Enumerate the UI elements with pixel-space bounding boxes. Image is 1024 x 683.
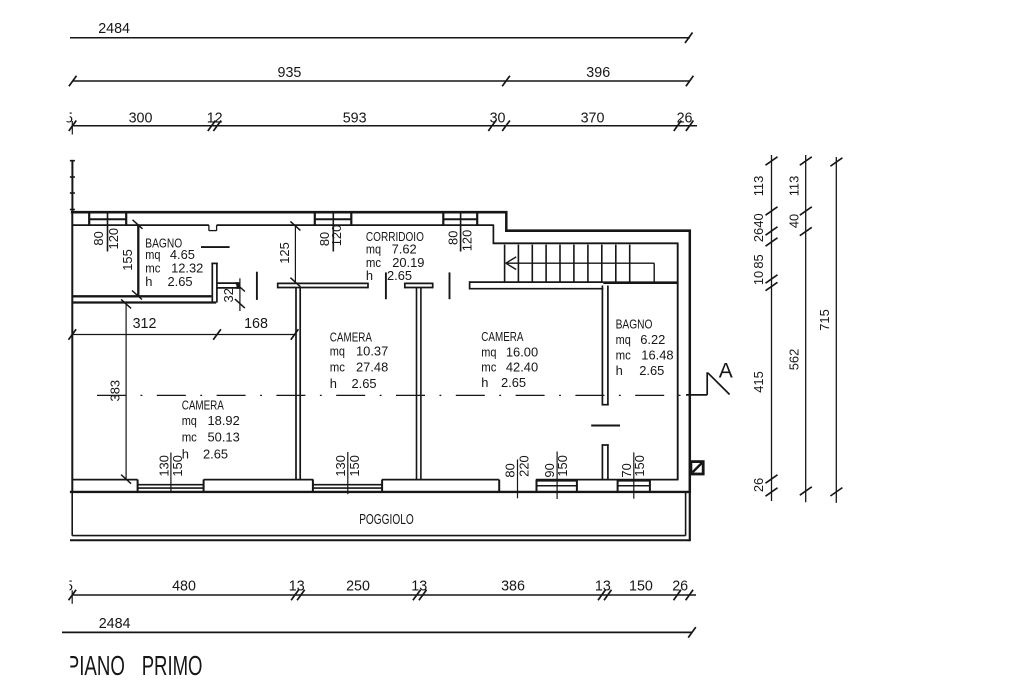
bottom dimension labels <box>65 579 688 595</box>
svg-text:383: 383 <box>108 380 123 402</box>
stair walk line with arrow <box>506 257 654 282</box>
svg-text:CAMERA: CAMERA <box>481 329 524 344</box>
dimension line 2484 (top) <box>70 32 693 43</box>
south wall exterior face <box>70 491 690 493</box>
camera18 north wall <box>72 301 216 303</box>
svg-text:13: 13 <box>595 579 611 595</box>
dim 125 vertical <box>290 221 300 286</box>
svg-text:mq: mq <box>616 332 631 347</box>
svg-text:386: 386 <box>501 579 525 595</box>
W3 labels 80 120 <box>446 230 475 252</box>
stair block top exterior face <box>505 229 691 232</box>
wall notch <box>209 225 217 231</box>
south window S4 70x150 <box>618 452 650 498</box>
corridor door leaf 1 <box>385 272 387 299</box>
svg-text:120: 120 <box>106 228 121 250</box>
balcony outer outline <box>70 491 690 542</box>
W2 labels 80 120 <box>317 225 344 247</box>
door labels 80 220 <box>502 455 531 477</box>
room text CAMERA 18.92 <box>182 397 240 461</box>
svg-text:16.48: 16.48 <box>641 347 673 362</box>
svg-text:250: 250 <box>346 579 370 595</box>
step exterior <box>505 211 508 232</box>
svg-text:h: h <box>182 447 189 462</box>
svg-text:150: 150 <box>555 455 570 477</box>
svg-text:150: 150 <box>629 579 653 595</box>
dim 383 vertical <box>121 299 131 483</box>
svg-text:80: 80 <box>502 463 517 477</box>
svg-text:PRIMO: PRIMO <box>142 650 203 681</box>
S4 labels 70 150 <box>619 455 647 477</box>
svg-text:12: 12 <box>207 111 223 127</box>
svg-text:h: h <box>366 268 373 283</box>
top wall interior face <box>73 224 494 226</box>
wall cut edge top-left <box>70 160 75 212</box>
svg-text:42.40: 42.40 <box>506 360 538 375</box>
svg-text:312: 312 <box>133 316 157 332</box>
partition BAGNO west + dim 155 <box>132 220 143 300</box>
svg-text:120: 120 <box>329 225 344 247</box>
svg-text:2.65: 2.65 <box>387 268 412 283</box>
drain hatch square <box>691 462 703 474</box>
svg-text:27.48: 27.48 <box>356 360 388 375</box>
dim line 312 / 168 <box>69 329 299 340</box>
svg-text:mc: mc <box>330 360 346 375</box>
svg-text:113: 113 <box>787 176 802 197</box>
door leaf bagno2 <box>591 425 620 427</box>
door dash bagno1 <box>201 246 230 248</box>
svg-text:mc: mc <box>182 430 198 445</box>
bagno2 west wall upper <box>602 286 609 406</box>
dimension labels row3 <box>65 111 693 127</box>
svg-text:935: 935 <box>278 65 302 81</box>
south window S2 130x150 <box>313 452 382 494</box>
S1 labels 130 150 <box>156 455 185 477</box>
svg-text:BAGNO: BAGNO <box>616 317 653 332</box>
left exterior wall <box>71 211 73 493</box>
svg-text:40: 40 <box>787 214 802 228</box>
door leaf bagno1 <box>256 272 258 300</box>
svg-text:18.92: 18.92 <box>208 413 240 428</box>
title PIANO PRIMO <box>67 650 203 681</box>
svg-text:2.65: 2.65 <box>168 274 193 289</box>
svg-text:CAMERA: CAMERA <box>330 329 373 344</box>
svg-text:16.00: 16.00 <box>506 344 538 359</box>
right interior face <box>677 243 679 481</box>
crop whiteout top left number <box>56 108 70 122</box>
svg-text:396: 396 <box>586 65 610 81</box>
svg-text:2.65: 2.65 <box>352 376 377 391</box>
chain B labels <box>787 176 802 371</box>
svg-text:80: 80 <box>91 231 106 245</box>
dimension line 2484 (bottom) <box>62 627 696 638</box>
chain A labels <box>751 176 766 492</box>
window W2 80x120 (top) <box>315 213 352 252</box>
room text BAGNO1 <box>145 235 203 289</box>
top wall exterior face <box>71 211 508 214</box>
section marker A <box>686 372 730 395</box>
svg-text:130: 130 <box>156 455 171 477</box>
right dimension chain C (715) <box>830 157 842 503</box>
svg-text:50.13: 50.13 <box>208 430 240 445</box>
svg-text:2.65: 2.65 <box>501 375 526 390</box>
stair treads <box>505 245 630 282</box>
svg-text:2484: 2484 <box>99 616 131 632</box>
svg-text:80: 80 <box>446 231 461 245</box>
svg-text:40: 40 <box>751 213 766 227</box>
interior step <box>492 225 494 245</box>
svg-text:2.65: 2.65 <box>639 363 664 378</box>
right dimension chain A (113/40/26/85/10/415/26) <box>766 155 778 501</box>
dimension line 26/300/12/593/30/370/26 <box>69 120 697 134</box>
W1 labels 80 120 <box>91 228 121 250</box>
window W3 80x120 (top) <box>443 213 477 252</box>
svg-text:h: h <box>330 376 337 391</box>
room1 south wall <box>72 295 211 297</box>
svg-text:2484: 2484 <box>98 21 130 37</box>
S2 labels 130 150 <box>333 455 362 477</box>
svg-text:715: 715 <box>817 309 832 331</box>
svg-text:h: h <box>145 274 152 289</box>
right exterior wall <box>689 230 692 493</box>
svg-text:30: 30 <box>490 111 506 127</box>
svg-text:150: 150 <box>347 455 362 477</box>
svg-text:300: 300 <box>129 111 153 127</box>
svg-text:85: 85 <box>751 254 766 268</box>
corridor door leaf 2 <box>449 272 451 299</box>
crop whiteout bottom left number <box>56 578 69 592</box>
svg-text:168: 168 <box>244 316 268 332</box>
room text BAGNO 6.22 <box>616 317 674 378</box>
svg-text:h: h <box>481 375 488 390</box>
svg-text:13: 13 <box>289 579 305 595</box>
svg-text:10.37: 10.37 <box>356 344 388 359</box>
balcony inner outline <box>72 493 685 536</box>
bagno2 west wall lower <box>602 444 609 480</box>
svg-text:480: 480 <box>172 579 196 595</box>
svg-text:120: 120 <box>460 230 475 252</box>
svg-text:415: 415 <box>751 371 766 393</box>
svg-text:593: 593 <box>343 111 367 127</box>
room text CORRIDOIO <box>366 229 425 283</box>
svg-text:PIANO: PIANO <box>67 650 125 681</box>
S3 labels 90 150 <box>542 455 570 477</box>
svg-text:220: 220 <box>517 455 532 477</box>
corridor south wall west segment <box>277 283 368 289</box>
south door 80x220 <box>499 459 517 498</box>
svg-text:26: 26 <box>677 111 693 127</box>
dimension line 935 / 396 <box>69 76 694 87</box>
corridor south wall east segment <box>469 281 603 289</box>
svg-text:mq: mq <box>182 413 197 428</box>
svg-text:155: 155 <box>120 249 135 271</box>
south window S3 90x150 <box>537 452 577 500</box>
camera10 west partition <box>296 288 300 480</box>
south window S1 130x150 <box>138 453 204 493</box>
svg-text:mq: mq <box>481 344 496 359</box>
svg-text:POGGIOLO: POGGIOLO <box>359 512 414 528</box>
svg-text:562: 562 <box>787 349 802 371</box>
svg-text:13: 13 <box>411 579 427 595</box>
crop whiteout over P stem <box>58 648 70 680</box>
dim 32 <box>235 278 245 311</box>
stair south wall <box>603 281 678 284</box>
room text CAMERA 16.00 <box>481 329 538 390</box>
svg-text:mq: mq <box>330 344 345 359</box>
svg-text:6.22: 6.22 <box>640 332 665 347</box>
svg-text:26: 26 <box>751 228 766 242</box>
svg-text:h: h <box>616 363 623 378</box>
hollow wall stub vertical (bagno corner) <box>211 263 217 303</box>
svg-text:26: 26 <box>672 579 688 595</box>
corridor T wall piece + stem partition <box>404 283 433 289</box>
hollow wall stub horizontal 32 <box>217 283 239 288</box>
south wall interior face <box>73 479 678 481</box>
stair interior top face <box>493 242 678 244</box>
room text CAMERA 10.37 <box>330 329 388 391</box>
window W1 80x120 (top) <box>89 213 126 252</box>
svg-text:CAMERA: CAMERA <box>182 397 225 412</box>
svg-text:mc: mc <box>481 360 497 375</box>
svg-text:mc: mc <box>616 347 632 362</box>
svg-text:A: A <box>719 360 733 383</box>
svg-text:10: 10 <box>751 271 766 285</box>
svg-text:32: 32 <box>221 288 236 302</box>
svg-text:150: 150 <box>632 455 647 477</box>
svg-text:113: 113 <box>751 176 766 197</box>
bottom dimension line 26/480/13/250/13/386/13/150/26 <box>69 590 697 604</box>
svg-text:125: 125 <box>277 242 292 264</box>
svg-text:2.65: 2.65 <box>203 447 228 462</box>
svg-text:26: 26 <box>751 478 766 492</box>
svg-text:370: 370 <box>581 111 605 127</box>
right dimension chain B (113/40/562) <box>800 155 812 502</box>
centerline (section trace) <box>97 394 690 396</box>
labels 312 168 <box>133 316 268 332</box>
